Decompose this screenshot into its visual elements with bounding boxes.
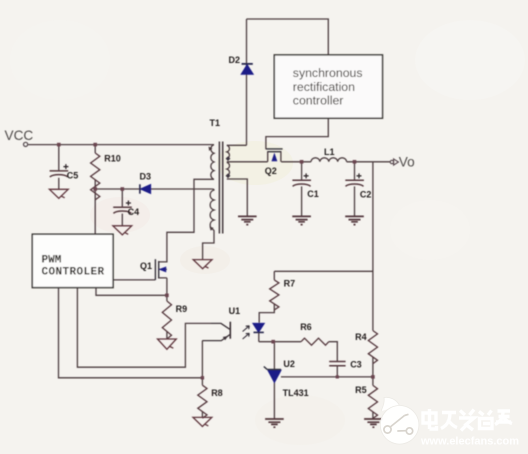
wire U1 LED cathode node to R6 (259, 341, 301, 343)
svg-text:synchronous: synchronous (293, 66, 363, 80)
wire U1 emitter down to R8 node (201, 341, 203, 378)
wire PWM pin1 to R8 node (feedback lower) (59, 288, 203, 378)
wire gate of Q2 from controller box bottom pin (266, 118, 328, 149)
MOSFET Q2 (266, 149, 283, 162)
svg-text:R8: R8 (211, 388, 223, 398)
wire Q1 gate lead from PWM box (113, 279, 155, 281)
wire output tap down to R7 node and R4 (372, 162, 374, 331)
wire PWM pin2 to U1 collector (feedback upper) (77, 288, 211, 368)
wire C1 to ground (301, 186, 303, 216)
svg-text:R9: R9 (176, 304, 188, 314)
junction node Q1 source / R9 (165, 294, 169, 298)
wire primary A bottom lead to Q1 drain (167, 179, 214, 259)
resistor R4 (368, 331, 377, 364)
svg-text:PWM: PWM (42, 255, 62, 267)
transformer polarity dot secondary D (226, 173, 231, 178)
plus sign of C1 (304, 173, 309, 178)
junction node output rail C1 (300, 160, 304, 164)
diode D2 (241, 64, 253, 74)
ground triangle R9 (158, 339, 177, 349)
svg-text:TL431: TL431 (283, 388, 309, 398)
wire R9 to ground (166, 331, 168, 339)
ground triangle C4 (113, 226, 132, 235)
transformer T1 core (219, 142, 222, 234)
wire C2 branch (354, 162, 356, 180)
wire C5 branch (58, 145, 60, 171)
VCC terminal circle (24, 142, 28, 146)
wire R7 top lead (273, 271, 275, 280)
wire D2 vertical from top rail to secondary top lead (246, 19, 248, 145)
wire R8 top lead (201, 378, 203, 385)
wire node A down to PWM controller top pin (94, 189, 96, 234)
diode D3 (140, 184, 151, 193)
wire R7 top horizontal (274, 270, 373, 272)
resistor R9 (162, 301, 171, 339)
svg-text:R4: R4 (355, 332, 367, 342)
wire L1 to Vo terminal (347, 161, 391, 163)
wire node A horizontal (R10/D3/C4 node to winding B top) (95, 188, 212, 190)
svg-text:Q2: Q2 (265, 166, 277, 176)
svg-text:C2: C2 (360, 189, 372, 199)
wire PWM pin3 to Q1 source / R9 top (96, 288, 167, 296)
wire R7 bottom lead stepping to U1 LED anode (259, 304, 274, 323)
capacitor C2 (345, 180, 364, 186)
svg-text:T1: T1 (210, 118, 221, 128)
transformer T1 primary winding A (211, 145, 214, 180)
wire secondary C top lead (227, 144, 247, 146)
junction node A at C4 (121, 187, 125, 191)
optocoupler U1 light arrows (243, 326, 250, 339)
svg-text:D3: D3 (140, 172, 152, 182)
ground bars T1 secondary (238, 216, 257, 224)
wire R10 top lead (94, 145, 96, 153)
wire C4 to ground (121, 214, 123, 226)
junction node VCC/R10 (93, 143, 97, 147)
svg-text:Q1: Q1 (140, 261, 152, 271)
capacitor C5 (50, 171, 69, 177)
ground triangle primary B (193, 260, 212, 269)
capacitor C1 (292, 180, 311, 186)
wire C2 to ground (354, 186, 356, 216)
svg-text:R7: R7 (284, 279, 296, 289)
plus sign of C5 (63, 164, 68, 169)
wire R6 to C3 (329, 342, 338, 362)
wire C3 bottom lead (336, 366, 338, 377)
ground triangle C5 (49, 189, 68, 198)
junction node VCC/C5 (57, 143, 61, 147)
capacitor C3 (329, 362, 345, 366)
svg-text:Vo: Vo (399, 154, 415, 169)
ground triangle R8 (193, 417, 212, 426)
transformer T1 primary winding B (210, 189, 214, 230)
svg-text:controller: controller (293, 93, 344, 107)
wire U1 LED cathode down (258, 333, 260, 342)
wire TL431 cathode branch (273, 342, 275, 370)
plus sign of C2 (357, 173, 362, 178)
plus sign of C4 (126, 201, 131, 206)
wire C1 branch (301, 162, 303, 180)
synchronous rectification controller box (274, 55, 382, 118)
svg-text:VCC: VCC (5, 128, 34, 143)
wire R4 bottom lead (372, 357, 374, 386)
svg-text:rectification: rectification (293, 80, 355, 94)
wire TL431 anode to ground (273, 382, 275, 419)
capacitor C4 (113, 207, 132, 213)
PWM controller box (32, 234, 113, 287)
junction node C3 / ref wire (336, 375, 339, 378)
svg-text:www.elecfans.com: www.elecfans.com (420, 436, 519, 448)
transformer T1 secondary winding C (227, 145, 230, 158)
wire secondary D bottom lead to ground (227, 179, 248, 216)
ground bars C1 (292, 216, 311, 224)
svg-text:C5: C5 (67, 171, 79, 181)
MOSFET Q1 (155, 259, 167, 280)
wire TL431 ref to divider node (281, 376, 373, 378)
transformer polarity dot primary B bottom (210, 227, 214, 231)
svg-text:U2: U2 (283, 359, 295, 369)
svg-text:R5: R5 (355, 385, 367, 395)
svg-text:R6: R6 (300, 322, 312, 332)
svg-text:R10: R10 (104, 154, 121, 164)
resistor R6 (horizontal) (301, 338, 329, 345)
optocoupler U1 phototransistor (202, 322, 230, 341)
watermark logo circle (380, 397, 419, 444)
svg-text:C3: C3 (350, 360, 362, 370)
transformer polarity dot primary A top (209, 147, 213, 151)
wire secondary mid tap to Q2 drain (227, 161, 268, 163)
wire R8 to ground (201, 412, 203, 418)
watermark Chinese characters (drawn) (423, 409, 512, 431)
transformer T1 secondary winding D (227, 162, 230, 175)
resistor R8 (198, 385, 207, 418)
wire primary B bottom lead to ground (203, 230, 214, 260)
wire top rail from D2 branch to controller box top pin (247, 19, 329, 55)
wire C5 to ground (58, 178, 60, 190)
svg-text:U1: U1 (229, 306, 241, 316)
wire Q1 source down to R9 node (166, 278, 168, 301)
resistor R5 (368, 385, 377, 418)
transformer polarity dot secondary C (226, 156, 231, 161)
svg-text:D2: D2 (229, 55, 241, 65)
wire Q2 source to L1 (281, 161, 311, 163)
ground bars C2 (345, 216, 364, 224)
wire R10 bottom lead (94, 180, 96, 189)
wire C4 branch (121, 189, 123, 207)
svg-text:CONTROLER: CONTROLER (42, 266, 105, 278)
svg-text:C4: C4 (128, 207, 140, 217)
junction node U1 cathode / TL431 (271, 340, 275, 344)
resistor R7 (270, 280, 279, 310)
Vo terminal arrow (390, 159, 398, 165)
ground bars R5 (364, 419, 383, 427)
svg-text:C1: C1 (307, 189, 319, 199)
wire VCC rail (28, 144, 214, 146)
resistor R10 (91, 153, 100, 200)
junction node divider R4/R5/ref (371, 375, 375, 379)
junction node A at R10 bottom (93, 187, 97, 191)
TL431 U2 (264, 367, 281, 383)
ground bars TL431 (265, 419, 284, 427)
inductor L1 (311, 158, 347, 162)
wire R5 to ground (372, 412, 374, 419)
junction node output rail C2 (353, 160, 357, 164)
junction node R8 / U1 emitter (201, 376, 204, 379)
svg-text:L1: L1 (324, 147, 335, 157)
optocoupler U1 LED (253, 323, 264, 332)
